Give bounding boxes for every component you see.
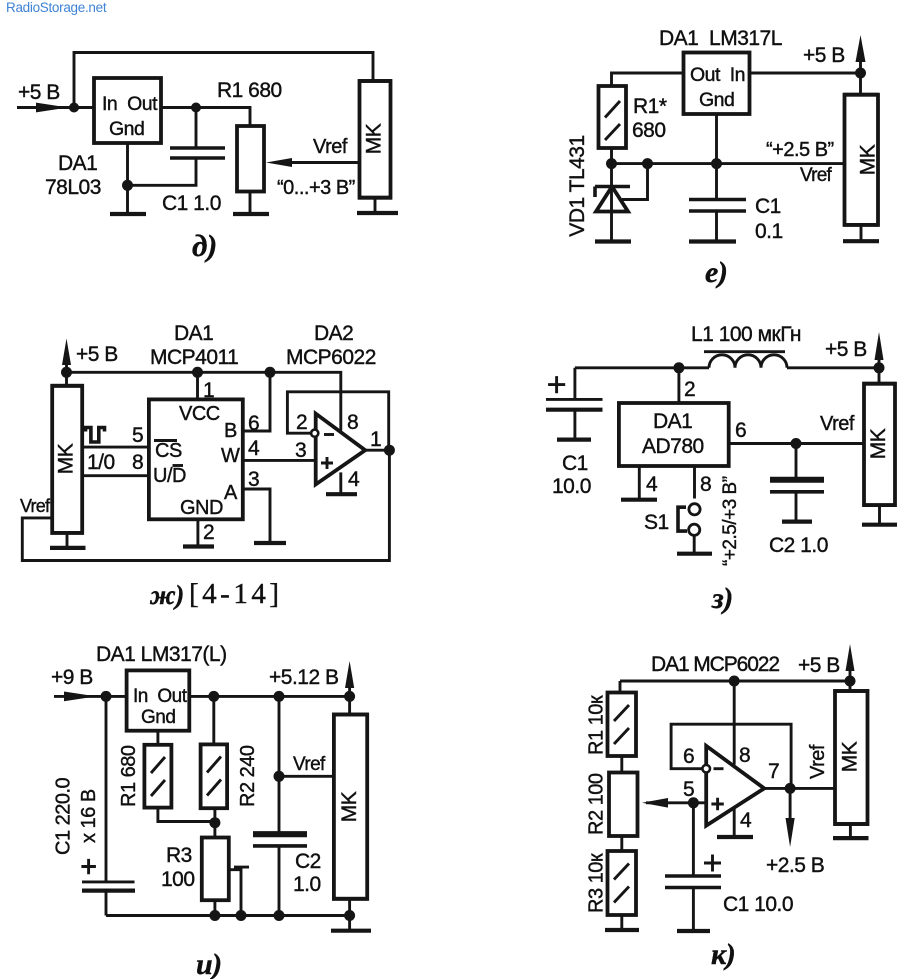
- svg-text:к): к): [711, 938, 735, 971]
- svg-text:+9 В: +9 В: [51, 666, 93, 689]
- svg-text:4: 4: [740, 809, 752, 832]
- svg-text:MCP4011: MCP4011: [150, 346, 238, 369]
- svg-text:“+2.5/+3 В”: “+2.5/+3 В”: [720, 476, 741, 566]
- svg-text:R1 680: R1 680: [217, 79, 282, 102]
- svg-text:Vref: Vref: [820, 413, 855, 435]
- svg-text:Vref: Vref: [313, 136, 348, 158]
- svg-text:U/D: U/D: [153, 465, 186, 487]
- svg-text:A: A: [224, 482, 238, 504]
- svg-text:B: B: [224, 420, 237, 442]
- svg-text:2: 2: [684, 378, 695, 401]
- svg-text:R1 10к: R1 10к: [586, 695, 608, 755]
- svg-text:R2 100: R2 100: [586, 773, 608, 835]
- svg-text:1: 1: [370, 428, 381, 451]
- svg-text:+5 В: +5 В: [18, 81, 60, 104]
- svg-text:1/0: 1/0: [87, 451, 115, 474]
- svg-text:C1 10.0: C1 10.0: [723, 893, 793, 916]
- svg-text:8: 8: [739, 744, 750, 767]
- svg-text:MK: MK: [363, 123, 386, 154]
- svg-text:6: 6: [683, 745, 694, 768]
- svg-text:GND: GND: [180, 497, 223, 519]
- svg-text:DA1 MCP6022: DA1 MCP6022: [651, 653, 779, 676]
- svg-text:0.1: 0.1: [755, 220, 783, 243]
- svg-text:Vref: Vref: [20, 496, 51, 516]
- svg-text:680: 680: [632, 119, 666, 142]
- svg-text:R3 10к: R3 10к: [586, 853, 608, 913]
- svg-text:MK: MK: [55, 443, 78, 474]
- svg-text:“0...+3 В”: “0...+3 В”: [277, 177, 355, 199]
- svg-text:DA2: DA2: [314, 322, 353, 345]
- svg-text:8: 8: [700, 473, 711, 496]
- svg-text:+2.5 В: +2.5 В: [766, 854, 824, 877]
- svg-text:Out In: Out In: [690, 64, 745, 86]
- svg-text:C1: C1: [562, 452, 588, 475]
- svg-text:In Out: In Out: [133, 686, 188, 707]
- svg-text:3: 3: [295, 439, 306, 462]
- svg-text:+5 В: +5 В: [825, 338, 867, 361]
- svg-text:VCC: VCC: [179, 403, 220, 425]
- svg-text:4: 4: [248, 437, 260, 460]
- svg-text:+5 В: +5 В: [798, 654, 840, 677]
- svg-text:DA1: DA1: [58, 152, 97, 175]
- svg-text:L1 100 мкГн: L1 100 мкГн: [691, 323, 801, 346]
- svg-text:DA1 LM317(L): DA1 LM317(L): [96, 643, 227, 666]
- svg-text:Gnd: Gnd: [699, 89, 734, 111]
- svg-text:CS: CS: [155, 440, 182, 462]
- svg-text:In Out: In Out: [102, 93, 158, 115]
- svg-text:MK: MK: [839, 741, 862, 772]
- svg-text:+5 В: +5 В: [803, 44, 845, 67]
- svg-text:Vref: Vref: [800, 165, 832, 186]
- svg-text:4: 4: [348, 468, 360, 491]
- svg-text:8: 8: [347, 411, 358, 434]
- svg-text:2: 2: [296, 411, 307, 434]
- svg-text:S1: S1: [644, 511, 669, 534]
- svg-text:DA1 LM317L: DA1 LM317L: [659, 27, 782, 50]
- svg-text:5: 5: [132, 424, 143, 447]
- svg-text:и): и): [196, 948, 222, 979]
- svg-text:7: 7: [768, 760, 779, 783]
- svg-text:MK: MK: [857, 144, 880, 175]
- svg-text:DA1: DA1: [174, 322, 213, 345]
- svg-text:д): д): [192, 228, 217, 263]
- svg-text:ж): ж): [149, 580, 184, 610]
- svg-text:DA1: DA1: [653, 410, 692, 433]
- svg-text:+5.12 В: +5.12 В: [269, 666, 338, 689]
- svg-text:100: 100: [161, 868, 195, 891]
- svg-text:Gnd: Gnd: [109, 118, 144, 140]
- svg-text:х 16 В: х 16 В: [78, 789, 100, 843]
- svg-text:C2: C2: [295, 850, 321, 873]
- svg-text:5: 5: [683, 778, 694, 801]
- svg-text:[4-14]: [4-14]: [189, 578, 282, 610]
- svg-text:6: 6: [735, 419, 746, 442]
- svg-text:R2 240: R2 240: [237, 745, 259, 807]
- svg-text:W: W: [221, 445, 240, 467]
- svg-text:е): е): [705, 256, 727, 289]
- svg-text:Vref: Vref: [293, 754, 326, 775]
- svg-text:C2 1.0: C2 1.0: [769, 534, 828, 557]
- svg-text:з): з): [711, 582, 733, 615]
- svg-text:MK: MK: [867, 428, 890, 459]
- svg-text:MK: MK: [338, 791, 361, 822]
- svg-text:“+2.5 В”: “+2.5 В”: [766, 139, 834, 161]
- svg-text:10.0: 10.0: [552, 475, 591, 498]
- svg-text:Gnd: Gnd: [141, 707, 175, 728]
- svg-text:R1 680: R1 680: [118, 745, 140, 807]
- svg-text:+5 В: +5 В: [76, 343, 118, 366]
- svg-text:1.0: 1.0: [293, 873, 321, 896]
- svg-text:C1 220.0: C1 220.0: [53, 777, 75, 855]
- svg-text:AD780: AD780: [642, 435, 704, 458]
- svg-text:4: 4: [646, 473, 658, 496]
- svg-text:Vref: Vref: [807, 744, 829, 779]
- svg-text:C1 1.0: C1 1.0: [162, 192, 221, 215]
- svg-text:VD1 TL431: VD1 TL431: [566, 135, 589, 236]
- svg-text:78L03: 78L03: [45, 176, 101, 199]
- svg-text:2: 2: [203, 521, 214, 544]
- svg-text:C1: C1: [755, 195, 781, 218]
- svg-text:R1*: R1*: [633, 95, 667, 118]
- svg-text:R3: R3: [166, 844, 192, 867]
- svg-text:MCP6022: MCP6022: [286, 346, 376, 369]
- svg-text:8: 8: [132, 451, 143, 474]
